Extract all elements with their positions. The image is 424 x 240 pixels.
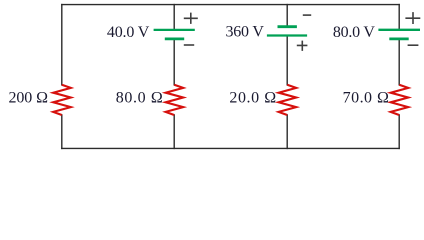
svg-text:80.0 V: 80.0 V <box>333 24 375 41</box>
svg-text:360 V: 360 V <box>226 24 265 41</box>
svg-text:20.0 Ω: 20.0 Ω <box>229 89 276 106</box>
svg-text:200 Ω: 200 Ω <box>9 90 49 107</box>
svg-text:70.0 Ω: 70.0 Ω <box>343 90 389 107</box>
svg-text:80.0 Ω: 80.0 Ω <box>116 90 163 107</box>
svg-text:40.0 V: 40.0 V <box>107 24 150 41</box>
